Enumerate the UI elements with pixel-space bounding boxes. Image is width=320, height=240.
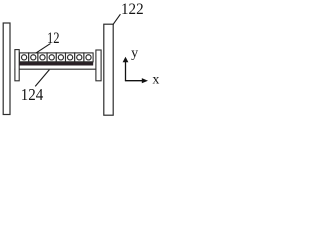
end bracket left <box>15 50 19 81</box>
svg-text:x: x <box>152 73 159 88</box>
leader line for 12 <box>36 44 51 54</box>
leader line for 122 <box>113 14 120 24</box>
rollers (balls) <box>22 55 92 60</box>
svg-text:y: y <box>131 46 138 61</box>
svg-text:124: 124 <box>21 85 44 104</box>
end bracket right <box>96 50 101 81</box>
leader line for 124 <box>35 70 49 87</box>
carriage bottom rail 124 <box>14 68 101 70</box>
roller cells 12 <box>20 53 94 62</box>
x axis line <box>125 80 143 82</box>
side plate left <box>3 23 10 115</box>
y axis arrowhead <box>123 57 129 63</box>
y axis line <box>125 62 127 81</box>
roller cage dark band <box>19 62 93 66</box>
x axis arrowhead <box>142 78 148 83</box>
svg-text:122: 122 <box>121 1 144 18</box>
svg-text:12: 12 <box>47 30 60 47</box>
side plate right 122 <box>104 24 113 115</box>
